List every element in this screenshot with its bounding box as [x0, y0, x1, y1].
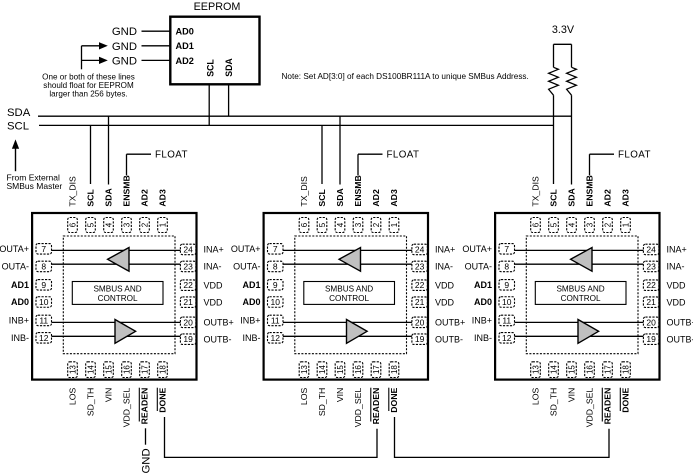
svg-text:1: 1 [621, 222, 630, 227]
svg-text:GND: GND [140, 448, 152, 473]
U1 pin 15 (bottom) [104, 362, 114, 378]
wire EEPROM SCL to SCL bus [208, 84, 210, 125]
svg-text:AD3: AD3 [621, 189, 631, 207]
U1 channel A amplifier (points left) [108, 248, 129, 272]
U1 pin 9 (left) [36, 280, 52, 291]
svg-text:13: 13 [300, 365, 309, 374]
wire GND to EEPROM AD2 [142, 59, 171, 61]
svg-text:INA-: INA- [204, 262, 222, 272]
svg-text:24: 24 [415, 244, 425, 254]
svg-text:SCL: SCL [7, 120, 29, 132]
svg-text:SDA: SDA [7, 107, 31, 119]
U3 READEN overline [601, 388, 603, 422]
svg-text:VIN: VIN [335, 388, 345, 402]
svg-text:OUTA-: OUTA- [465, 262, 492, 272]
U1 pin 20 (right) [180, 317, 196, 328]
U1 wire INA+ to OUTA+ (pins 24 to 7) [52, 249, 181, 251]
U1 pin 1 (top) [158, 218, 168, 233]
arrowhead pointing at AD2 GND [100, 58, 107, 64]
U3 channel A amplifier (points left) [571, 248, 592, 272]
svg-text:14: 14 [549, 365, 558, 374]
svg-text:9: 9 [273, 280, 278, 290]
op-amp repeater U3 outer body [495, 213, 659, 380]
svg-text:1: 1 [390, 222, 399, 227]
svg-text:17: 17 [372, 365, 381, 374]
U1 pin 24 (right) [180, 244, 196, 255]
U1 wire INB+ to OUTB+ (pins 11 to 20) [52, 321, 181, 323]
svg-text:5: 5 [86, 222, 95, 227]
U3 inner dashed die outline [526, 236, 638, 354]
svg-text:larger than 256 bytes.: larger than 256 bytes. [49, 89, 127, 98]
svg-text:AD2: AD2 [603, 189, 613, 207]
svg-text:21: 21 [646, 297, 656, 307]
svg-text:8: 8 [504, 261, 509, 271]
U2 pin 19 (right) [412, 334, 428, 345]
svg-text:10: 10 [39, 297, 49, 307]
svg-text:SDA: SDA [224, 58, 234, 77]
svg-text:OUTB+: OUTB+ [204, 318, 234, 328]
svg-text:6: 6 [531, 222, 540, 227]
svg-text:12: 12 [502, 333, 512, 343]
U1 pin 8 (left) [36, 261, 52, 272]
U1 pin 12 (left) [36, 333, 52, 344]
svg-text:OUTA+: OUTA+ [462, 244, 492, 254]
svg-text:2: 2 [603, 222, 612, 227]
svg-text:AD0: AD0 [474, 297, 492, 307]
svg-text:19: 19 [646, 334, 656, 344]
svg-text:6: 6 [300, 222, 309, 227]
wire SDA bus to U1 SDA pin [108, 116, 110, 184]
svg-text:OUTA-: OUTA- [2, 262, 29, 272]
U3 pin 20 (right) [643, 317, 659, 328]
U3 pin 23 (right) [643, 261, 659, 272]
svg-text:VIN: VIN [104, 388, 114, 402]
svg-text:DONE: DONE [158, 388, 168, 413]
U3 pin 14 (bottom) [549, 362, 559, 378]
U2 pin 4 (top) [335, 218, 345, 233]
svg-text:AD1: AD1 [176, 41, 194, 51]
svg-text:11: 11 [502, 315, 511, 325]
svg-text:20: 20 [183, 317, 193, 327]
svg-text:VDD: VDD [667, 280, 687, 290]
svg-text:AD0: AD0 [242, 297, 260, 307]
svg-text:4: 4 [104, 222, 113, 227]
svg-text:22: 22 [646, 280, 656, 290]
svg-text:SD_TH: SD_TH [549, 388, 559, 416]
svg-text:21: 21 [415, 297, 425, 307]
U3 pin 19 (right) [643, 334, 659, 345]
U2 pin 3 (top) [353, 218, 363, 233]
U1 pin 17 (bottom) [140, 362, 150, 378]
svg-text:INB+: INB+ [9, 316, 29, 326]
svg-text:INB-: INB- [243, 333, 261, 343]
svg-text:20: 20 [415, 317, 425, 327]
wire U2 DONE to U3 READEN [395, 417, 610, 457]
svg-text:3: 3 [354, 222, 363, 227]
svg-text:22: 22 [415, 280, 425, 290]
svg-text:16: 16 [122, 365, 131, 374]
U3 pin 2 (top) [603, 218, 613, 233]
svg-text:CONTROL: CONTROL [329, 294, 369, 303]
U3 pin 5 (top) [549, 218, 559, 233]
U3 wire INB- to OUTB- (pins 12 to 19) [515, 335, 644, 337]
U2 channel B amplifier (points right) [347, 320, 368, 344]
svg-text:4: 4 [336, 222, 345, 227]
svg-text:DONE: DONE [389, 388, 399, 413]
U3 pin 21 (right) [643, 297, 659, 308]
svg-text:3: 3 [122, 222, 131, 227]
svg-text:AD0: AD0 [176, 27, 194, 37]
U3 DONE overline [619, 388, 621, 411]
svg-text:FLOAT: FLOAT [618, 149, 651, 160]
U3 wire INB+ to OUTB+ (pins 11 to 20) [515, 321, 644, 323]
U1 pin 18 (bottom) [158, 362, 168, 378]
svg-text:INB-: INB- [11, 333, 29, 343]
wire SCL bus [39, 124, 554, 126]
U2 pin 11 (left) [268, 315, 284, 326]
svg-text:FLOAT: FLOAT [387, 149, 420, 160]
op-amp repeater U2 outer body [264, 213, 428, 380]
svg-text:SCL: SCL [549, 189, 559, 207]
wire SDA bus to U2 SDA pin [339, 116, 341, 184]
U2 pin 6 (top) [299, 218, 309, 233]
svg-text:SDA: SDA [335, 188, 345, 207]
svg-text:READEN: READEN [140, 388, 150, 425]
svg-text:AD1: AD1 [11, 280, 29, 290]
svg-text:TX_DIS: TX_DIS [299, 176, 309, 207]
U2 channel A amplifier (points left) [339, 248, 360, 272]
svg-text:INB-: INB- [474, 333, 492, 343]
wire 3.3V to resistor R2 [571, 44, 573, 67]
wire SCL bus to U1 SCL pin [90, 125, 92, 184]
arrowhead pointing at AD1 GND [100, 43, 107, 49]
svg-text:LOS: LOS [68, 388, 78, 406]
svg-text:EEPROM: EEPROM [194, 1, 241, 13]
U3 pin 15 (bottom) [567, 362, 577, 378]
svg-text:INB+: INB+ [472, 316, 492, 326]
svg-text:7: 7 [41, 244, 46, 254]
svg-text:FLOAT: FLOAT [155, 149, 188, 160]
U1 pin 21 (right) [180, 297, 196, 308]
svg-text:17: 17 [603, 365, 612, 374]
svg-text:AD2: AD2 [140, 189, 150, 207]
svg-text:13: 13 [68, 365, 77, 374]
svg-text:SD_TH: SD_TH [317, 388, 327, 416]
svg-text:OUTA+: OUTA+ [0, 244, 29, 254]
float note callout wire to AD1 GND [82, 45, 101, 47]
U1 pin 11 (left) [36, 315, 52, 326]
svg-text:ENSMB: ENSMB [353, 175, 363, 206]
U3 pin 18 (bottom) [621, 362, 631, 378]
svg-text:SCL: SCL [206, 59, 216, 77]
svg-text:17: 17 [140, 365, 149, 374]
U2 pin 20 (right) [412, 317, 428, 328]
svg-text:5: 5 [318, 222, 327, 227]
svg-text:ENSMB: ENSMB [585, 175, 595, 206]
svg-text:VDD_SEL: VDD_SEL [122, 388, 132, 428]
U2 wire INB+ to OUTB+ (pins 11 to 20) [283, 321, 412, 323]
U2 pin 10 (left) [268, 297, 284, 308]
svg-text:INA+: INA+ [204, 245, 224, 255]
svg-text:10: 10 [502, 297, 512, 307]
U3 pin 12 (left) [499, 333, 515, 344]
U3 wire INA+ to OUTA+ (pins 24 to 7) [515, 249, 644, 251]
svg-text:12: 12 [271, 333, 281, 343]
svg-text:SMBUS AND: SMBUS AND [325, 285, 373, 294]
U1 pin 2 (top) [140, 218, 150, 233]
svg-text:OUTA-: OUTA- [233, 262, 260, 272]
svg-text:24: 24 [646, 244, 656, 254]
U1 wire FLOAT to ENSMB [127, 153, 152, 155]
U2 pin 5 (top) [317, 218, 327, 233]
wire U1 DONE to U2 READEN [165, 417, 378, 457]
svg-text:21: 21 [183, 297, 193, 307]
svg-text:16: 16 [354, 365, 363, 374]
U3 pin 13 (bottom) [531, 362, 541, 378]
svg-text:AD1: AD1 [242, 280, 260, 290]
svg-text:23: 23 [646, 261, 656, 271]
U3 pin 16 (bottom) [585, 362, 595, 378]
U1 wire INA- to OUTA- (pins 23 to 8) [52, 263, 181, 265]
U1 pin 19 (right) [180, 334, 196, 345]
svg-text:CONTROL: CONTROL [561, 294, 601, 303]
svg-text:ENSMB: ENSMB [122, 175, 132, 206]
svg-text:GND: GND [112, 55, 137, 67]
U3 pin 9 (left) [499, 280, 515, 291]
svg-text:AD2: AD2 [371, 189, 381, 207]
svg-text:7: 7 [504, 244, 509, 254]
U3 pin 4 (top) [567, 218, 577, 233]
U2 pin 15 (bottom) [335, 362, 345, 378]
svg-text:18: 18 [390, 365, 399, 374]
svg-text:2: 2 [372, 222, 381, 227]
svg-text:14: 14 [318, 365, 327, 374]
svg-text:OUTB-: OUTB- [204, 334, 232, 344]
U1 channel B amplifier (points right) [115, 320, 136, 344]
U2 wire INB- to OUTB- (pins 12 to 19) [283, 335, 412, 337]
svg-text:AD0: AD0 [11, 297, 29, 307]
svg-text:SCL: SCL [86, 189, 96, 207]
svg-text:8: 8 [41, 261, 46, 271]
EEPROM U4 body [170, 17, 259, 85]
wire U1 READEN to ground [145, 428, 147, 444]
svg-text:11: 11 [271, 315, 280, 325]
svg-text:8: 8 [273, 261, 278, 271]
svg-text:TX_DIS: TX_DIS [68, 176, 78, 207]
svg-text:VDD: VDD [435, 297, 455, 307]
svg-text:AD2: AD2 [176, 56, 194, 66]
op-amp repeater U1 outer body [32, 213, 196, 380]
arrow from external SMBus master [15, 148, 17, 172]
U2 SMBUS AND CONTROL block [304, 282, 395, 305]
svg-text:14: 14 [86, 365, 95, 374]
svg-text:VDD: VDD [435, 280, 455, 290]
svg-text:Note: Set AD[3:0] of each DS1: Note: Set AD[3:0] of each DS100BR111A to… [282, 72, 529, 81]
U3 wire INA- to OUTA- (pins 23 to 8) [515, 263, 644, 265]
U1 pin 7 (left) [36, 244, 52, 255]
U3 pin 11 (left) [499, 315, 515, 326]
svg-text:22: 22 [183, 280, 193, 290]
U2 pin 14 (bottom) [317, 362, 327, 378]
U2 pin 18 (bottom) [389, 362, 399, 378]
svg-text:9: 9 [41, 280, 46, 290]
svg-text:13: 13 [531, 365, 540, 374]
wire 3.3V rail top bar [554, 43, 572, 45]
U2 pin 7 (left) [268, 244, 284, 255]
svg-text:19: 19 [183, 334, 193, 344]
U2 pin 2 (top) [371, 218, 381, 233]
U2 pin 22 (right) [412, 280, 428, 291]
float note callout wire to AD2 GND [82, 59, 101, 61]
wire EEPROM SDA to SDA bus [228, 84, 230, 116]
U2 pin 23 (right) [412, 261, 428, 272]
U1 pin 10 (left) [36, 297, 52, 308]
wire 3.3V to resistor R1 [553, 44, 555, 67]
svg-text:23: 23 [415, 261, 425, 271]
U3 channel B amplifier (points right) [578, 320, 599, 344]
svg-text:2: 2 [140, 222, 149, 227]
U2 pin 17 (bottom) [371, 362, 381, 378]
svg-text:LOS: LOS [531, 388, 541, 406]
svg-text:VDD: VDD [667, 297, 687, 307]
wire GND to EEPROM AD0 [142, 30, 171, 32]
svg-text:INA+: INA+ [667, 245, 687, 255]
U1 pin 5 (top) [86, 218, 96, 233]
U3 pin 7 (left) [499, 244, 515, 255]
U1 pin 4 (top) [104, 218, 114, 233]
svg-text:OUTA+: OUTA+ [231, 244, 261, 254]
svg-text:4: 4 [567, 222, 576, 227]
svg-text:15: 15 [336, 365, 345, 374]
svg-text:READEN: READEN [371, 388, 381, 425]
svg-text:10: 10 [271, 297, 281, 307]
U3 pin 10 (left) [499, 297, 515, 308]
svg-text:VDD_SEL: VDD_SEL [353, 388, 363, 428]
svg-text:20: 20 [646, 317, 656, 327]
U2 pin 13 (bottom) [299, 362, 309, 378]
resistor R2 (SDA pullup) [567, 67, 577, 95]
U3 pin 6 (top) [531, 218, 541, 233]
U1 pin 13 (bottom) [68, 362, 78, 378]
svg-text:15: 15 [104, 365, 113, 374]
svg-text:LOS: LOS [299, 388, 309, 406]
svg-text:1: 1 [158, 222, 167, 227]
U2 pin 21 (right) [412, 297, 428, 308]
svg-text:DONE: DONE [621, 388, 631, 413]
wire GND to EEPROM AD1 [142, 45, 171, 47]
U3 wire FLOAT to ENSMB [590, 153, 615, 155]
svg-text:AD1: AD1 [474, 280, 492, 290]
U2 pin 1 (top) [389, 218, 399, 233]
U1 pin 14 (bottom) [86, 362, 96, 378]
U3 pin 8 (left) [499, 261, 515, 272]
U2 inner dashed die outline [295, 236, 407, 354]
svg-text:CONTROL: CONTROL [98, 294, 138, 303]
svg-text:SDA: SDA [104, 188, 114, 207]
svg-text:3.3V: 3.3V [552, 24, 575, 36]
U3 pin 24 (right) [643, 244, 659, 255]
svg-text:7: 7 [273, 244, 278, 254]
U1 pin 3 (top) [122, 218, 132, 233]
U2 pin 9 (left) [268, 280, 284, 291]
svg-text:VDD: VDD [204, 297, 224, 307]
float note callout wire vertical [81, 46, 83, 70]
svg-text:19: 19 [415, 334, 425, 344]
svg-text:SMBUS AND: SMBUS AND [556, 285, 604, 294]
U3 pin 22 (right) [643, 280, 659, 291]
svg-text:OUTB-: OUTB- [435, 334, 463, 344]
U1 pin 16 (bottom) [122, 362, 132, 378]
U2 pin 12 (left) [268, 333, 284, 344]
svg-text:INA-: INA- [667, 262, 685, 272]
svg-text:11: 11 [39, 315, 48, 325]
U2 pin 8 (left) [268, 261, 284, 272]
svg-text:SMBus Master: SMBus Master [7, 181, 63, 191]
svg-text:VDD: VDD [204, 280, 224, 290]
svg-text:OUTB+: OUTB+ [667, 318, 693, 328]
wire SDA bus [38, 115, 572, 117]
U2 READEN overline [370, 388, 372, 422]
U1 pin 6 (top) [68, 218, 78, 233]
U3 pin 1 (top) [621, 218, 631, 233]
U1 pin 22 (right) [180, 280, 196, 291]
svg-text:OUTB+: OUTB+ [435, 318, 465, 328]
svg-text:SMBUS AND: SMBUS AND [93, 285, 141, 294]
svg-text:INB+: INB+ [240, 316, 260, 326]
svg-text:15: 15 [567, 365, 576, 374]
svg-text:GND: GND [112, 41, 137, 53]
U1 wire INB- to OUTB- (pins 12 to 19) [52, 335, 181, 337]
svg-text:12: 12 [39, 333, 49, 343]
wire R1 to SCL bus and U3 SCL pin [553, 95, 555, 184]
U2 wire INA- to OUTA- (pins 23 to 8) [283, 263, 412, 265]
svg-text:16: 16 [585, 365, 594, 374]
U3 SMBUS AND CONTROL block [535, 282, 626, 305]
svg-text:23: 23 [183, 261, 193, 271]
svg-text:24: 24 [183, 244, 193, 254]
U2 pin 16 (bottom) [353, 362, 363, 378]
svg-text:INA+: INA+ [435, 245, 455, 255]
resistor R1 (SCL pullup) [549, 67, 559, 95]
svg-text:SCL: SCL [317, 189, 327, 207]
U2 wire INA+ to OUTA+ (pins 24 to 7) [283, 249, 412, 251]
svg-text:TX_DIS: TX_DIS [531, 176, 541, 207]
svg-text:GND: GND [112, 26, 137, 38]
wire R2 to SDA bus and U3 SDA pin [571, 95, 573, 184]
U2 wire FLOAT to ENSMB [358, 153, 383, 155]
svg-text:INA-: INA- [435, 262, 453, 272]
svg-text:5: 5 [549, 222, 558, 227]
svg-text:VDD_SEL: VDD_SEL [585, 388, 595, 428]
svg-text:OUTB-: OUTB- [667, 334, 693, 344]
svg-text:AD3: AD3 [158, 189, 168, 207]
svg-text:18: 18 [621, 365, 630, 374]
U1 DONE overline [156, 388, 158, 411]
svg-text:VIN: VIN [567, 388, 577, 402]
svg-text:SD_TH: SD_TH [86, 388, 96, 416]
svg-text:6: 6 [68, 222, 77, 227]
svg-text:READEN: READEN [603, 388, 613, 425]
U2 DONE overline [388, 388, 390, 411]
U1 SMBUS AND CONTROL block [72, 282, 163, 305]
U2 pin 24 (right) [412, 244, 428, 255]
svg-text:AD3: AD3 [389, 189, 399, 207]
svg-text:SDA: SDA [567, 188, 577, 207]
wire SCL bus to U2 SCL pin [321, 125, 323, 184]
U1 inner dashed die outline [63, 236, 175, 354]
U3 pin 3 (top) [585, 218, 595, 233]
svg-text:18: 18 [158, 365, 167, 374]
